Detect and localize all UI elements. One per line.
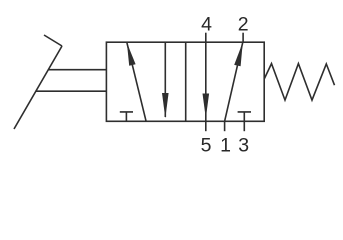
svg-text:4: 4 xyxy=(201,14,212,36)
right position flow line 4-to-5 with port stubs xyxy=(205,33,207,132)
lever arm long line xyxy=(14,46,62,129)
left position blocked port T symbol xyxy=(120,112,133,121)
svg-text:3: 3 xyxy=(238,135,249,157)
port 2 stub wire xyxy=(242,33,244,43)
valve position divider xyxy=(185,42,187,121)
arrowhead right down arrow xyxy=(203,94,210,119)
return spring xyxy=(264,64,334,101)
valve body outline xyxy=(106,42,264,121)
right position blocked port T symbol xyxy=(238,112,251,121)
wire lever-to-body bottom connector xyxy=(36,90,107,92)
left position flow arrow 1-to-4 line xyxy=(127,43,146,122)
wire lever-to-body top connector xyxy=(48,69,106,71)
port 3 stub wire xyxy=(243,121,245,131)
svg-text:1: 1 xyxy=(220,135,231,157)
left position flow arrow 2-to-3 line xyxy=(164,42,166,117)
arrowhead left slant arrow xyxy=(127,43,136,66)
port 1 stub wire xyxy=(224,121,226,131)
arrowhead left down arrow xyxy=(162,93,169,118)
svg-text:5: 5 xyxy=(201,135,212,157)
right position flow arrow 1-to-2 line xyxy=(225,42,243,121)
svg-text:2: 2 xyxy=(238,14,249,36)
arrowhead right slant arrow xyxy=(234,42,243,66)
lever arm short line xyxy=(44,35,62,46)
